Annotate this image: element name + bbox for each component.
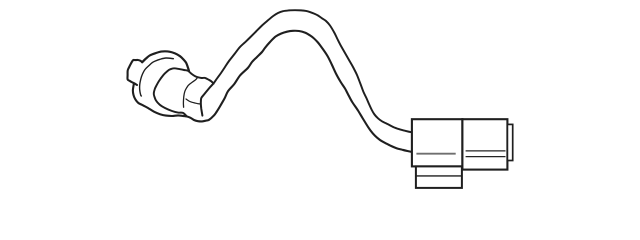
sensor cap face rim	[201, 84, 214, 116]
gray line in left box	[416, 153, 455, 155]
right box inner line 1	[466, 150, 506, 152]
sensor bottom silhouette + wire lower edge	[133, 31, 412, 152]
sensor hex tab	[127, 60, 142, 85]
cap inner thin arc	[183, 77, 197, 107]
connector lower box	[416, 166, 462, 188]
connector right box	[462, 119, 507, 169]
right box inner line 2	[466, 156, 506, 158]
sensor flange dome (top outline)	[142, 51, 189, 71]
wire upper edge	[214, 10, 412, 132]
cylinder top edge / junction bow / cap top	[154, 68, 214, 116]
flange inner face arc	[140, 58, 174, 96]
lower box inner line	[416, 175, 462, 177]
connector main body (left box)	[412, 119, 463, 166]
connector latch tab	[507, 124, 512, 160]
cap mid tick	[186, 99, 201, 104]
